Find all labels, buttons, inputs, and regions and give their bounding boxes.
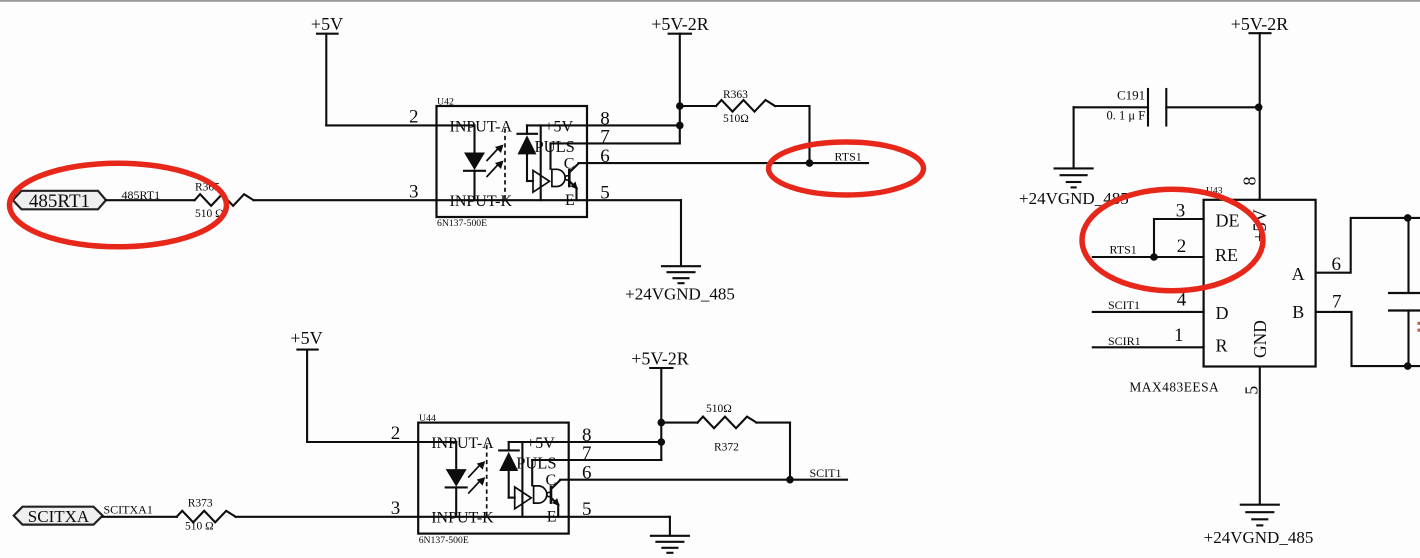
svg-text:2: 2 — [1177, 236, 1187, 257]
svg-text:R363: R363 — [723, 89, 748, 101]
svg-text:+5V-2R: +5V-2R — [631, 349, 689, 369]
svg-text:R: R — [1216, 336, 1228, 356]
svg-text:0. 1 μ F: 0. 1 μ F — [1107, 109, 1146, 123]
sheet top border — [0, 0, 1420, 2]
pin number 7 — [1332, 291, 1342, 312]
svg-text:3: 3 — [1176, 201, 1186, 222]
ground +24VGND_485 left of U43 — [1019, 168, 1129, 207]
junction SCIT1 — [786, 476, 794, 484]
svg-text:RTS1: RTS1 — [835, 149, 862, 163]
pin number 5 rotated — [1242, 386, 1262, 395]
svg-text:5: 5 — [1242, 386, 1262, 395]
wire U44 pin 5 to ground — [569, 517, 670, 536]
junction pin8 — [676, 122, 684, 130]
svg-text:DE: DE — [1216, 210, 1240, 230]
optocoupler U44 6N137-500E — [391, 413, 592, 546]
junction R372 tap — [658, 419, 666, 427]
capacitor right edge — [1388, 218, 1420, 366]
red marks cut at edge — [1417, 322, 1420, 332]
annotation ellipse around RTS1 DE RE — [1082, 189, 1263, 291]
wire U44 pin 8 to rail — [569, 441, 662, 443]
junction A bus — [1404, 214, 1412, 222]
annotation ellipse around 485RT1 — [10, 163, 227, 247]
pin number 2 — [1177, 236, 1187, 257]
svg-text:D: D — [1216, 303, 1229, 323]
wire R363 down to RTS1 node — [808, 106, 810, 163]
wire SCITXA to R373 — [103, 516, 177, 518]
ground bottom — [651, 536, 689, 553]
power +5V-2R top — [651, 14, 709, 143]
svg-text:RTS1: RTS1 — [1110, 243, 1137, 257]
svg-text:RE: RE — [1215, 245, 1238, 265]
capacitor C191 — [1107, 88, 1167, 126]
wire pin 6 to net RTS1 — [587, 162, 868, 164]
power +5V bottom — [290, 328, 322, 442]
wire +5V to U42 pin 2 — [326, 124, 436, 126]
svg-text:+5V: +5V — [311, 14, 343, 34]
wire +5V to U44 pin 2 — [307, 441, 418, 443]
junction RTS1 — [806, 159, 814, 167]
net label SCIT1 — [810, 466, 842, 480]
svg-text:1: 1 — [1174, 325, 1184, 346]
wire branch to DE pin 3 — [1154, 219, 1204, 257]
pin number 8 rotated — [1240, 177, 1260, 186]
resistor R363 — [680, 89, 810, 125]
wire pin 8 to +5V-2R rail — [587, 124, 680, 126]
svg-text:485RT1: 485RT1 — [29, 191, 90, 212]
wire SCIR1 to R pin 1 — [1093, 346, 1204, 348]
svg-text:B: B — [1292, 302, 1304, 322]
svg-text:SCITXA: SCITXA — [28, 507, 90, 526]
net label RTS1 right — [1110, 243, 1137, 257]
svg-text:510Ω: 510Ω — [723, 113, 749, 125]
wire C191 left plate to ground — [1074, 107, 1148, 168]
svg-text:8: 8 — [1240, 177, 1260, 186]
svg-text:7: 7 — [1332, 291, 1342, 312]
wire U43 pin 5 to ground — [1259, 367, 1261, 504]
svg-text:MAX483EESA: MAX483EESA — [1129, 380, 1219, 395]
net label SCIR1 — [1108, 334, 1141, 348]
pin number 3 — [1176, 201, 1186, 222]
optocoupler U42 6N137-500E — [409, 96, 610, 229]
annotation ellipse around RTS1 — [769, 142, 924, 195]
svg-text:510Ω: 510Ω — [706, 403, 732, 415]
resistor R365 — [195, 182, 254, 220]
port connector 485RT1 — [13, 191, 106, 212]
power +5V-2R right — [1231, 14, 1289, 200]
wire SCIT1 to D pin 4 — [1093, 311, 1204, 313]
resistor R372 — [661, 403, 790, 454]
wire R365 to U42 pin 3 — [254, 199, 437, 201]
pin number 6 — [1332, 254, 1342, 275]
svg-text:R372: R372 — [714, 441, 739, 453]
resistor R373 — [177, 497, 236, 532]
svg-text:+5V: +5V — [290, 328, 322, 348]
wire RTS1 to RE pin 2 — [1093, 256, 1204, 258]
svg-text:R373: R373 — [188, 497, 213, 509]
junction B bus — [1404, 362, 1412, 370]
svg-text:SCIT1: SCIT1 — [810, 466, 842, 480]
net label SCITXA1 — [104, 503, 153, 517]
junction pin8 bottom — [658, 438, 666, 446]
wire +5V-2R to pin 7 — [587, 142, 680, 144]
svg-text:510 Ω: 510 Ω — [185, 520, 214, 532]
power +5V — [311, 14, 343, 125]
wire 485RT1 to R365 — [106, 199, 195, 201]
ground +24VGND_485 top — [625, 266, 735, 303]
net label RTS1 — [835, 149, 862, 163]
wire R372 down to SCIT1 node — [789, 423, 791, 480]
svg-text:U44: U44 — [419, 413, 436, 424]
wire U44 pin 6 to net SCIT1 — [569, 479, 847, 481]
junction C191 rail — [1255, 104, 1263, 112]
svg-text:+5V-2R: +5V-2R — [1231, 14, 1289, 34]
pin number 4 — [1177, 290, 1187, 311]
wire A pin 6 to right bus — [1316, 218, 1420, 273]
port connector SCITXA — [14, 507, 103, 526]
svg-text:GND: GND — [1250, 320, 1270, 358]
wire C191 right plate to rail — [1166, 106, 1259, 108]
svg-text:U42: U42 — [437, 96, 454, 107]
svg-text:SCIR1: SCIR1 — [1108, 334, 1141, 348]
svg-text:+24VGND_485: +24VGND_485 — [1204, 528, 1314, 547]
junction RTS1-DE/RE — [1150, 253, 1158, 261]
wire B pin 7 to right bus — [1316, 312, 1420, 366]
svg-text:+5V-2R: +5V-2R — [651, 14, 709, 34]
svg-text:SCIT1: SCIT1 — [1108, 298, 1140, 312]
net label SCIT1 right — [1108, 298, 1140, 312]
svg-text:A: A — [1292, 264, 1305, 284]
ic U43 MAX483EESA — [1129, 185, 1315, 394]
ground +24VGND_485 under U43 — [1204, 505, 1314, 548]
power +5V-2R bottom — [631, 349, 689, 461]
svg-text:C191: C191 — [1117, 88, 1145, 103]
svg-text:SCITXA1: SCITXA1 — [104, 503, 153, 517]
wire +5V-2R to U44 pin 7 — [569, 459, 662, 461]
junction R363 tap — [676, 102, 684, 110]
pin number 1 — [1174, 325, 1184, 346]
wire R373 to U44 pin 3 — [236, 516, 419, 518]
wire pin 5 to ground — [587, 200, 681, 266]
net label 485RT1 — [122, 188, 161, 202]
svg-text:+24VGND_485: +24VGND_485 — [625, 284, 735, 303]
